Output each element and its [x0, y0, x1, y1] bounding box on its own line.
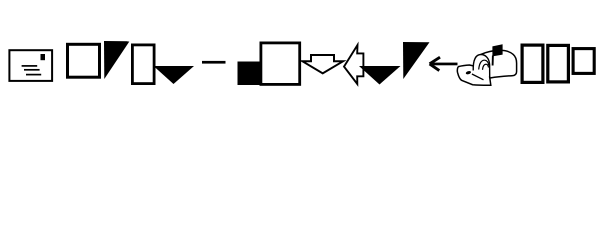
tall rectangle glyph 2 [522, 45, 543, 82]
hollow down arrow [303, 55, 344, 73]
mailbox door flap [457, 65, 490, 85]
tall rectangle glyph 1 [132, 45, 154, 84]
mailbox curl hook [483, 64, 489, 70]
envelope glyph [9, 50, 52, 81]
dash glyph [202, 61, 226, 64]
hollow left arrow [344, 45, 363, 84]
mailbox body [481, 50, 517, 78]
wedge triangle glyph 1 [104, 41, 130, 79]
mailbox front arch [473, 54, 490, 77]
down-pointing filled triangle 2 [359, 66, 401, 85]
thin left arrow [430, 57, 458, 70]
outlined square with black square overlay [238, 43, 300, 85]
small square glyph [573, 49, 594, 74]
mailbox inner curl [479, 60, 489, 69]
mailbox door handle [465, 70, 471, 75]
down-pointing filled triangle 1 [154, 66, 195, 84]
tall rectangle glyph 3 [548, 45, 569, 82]
square glyph 1 [68, 44, 100, 77]
wedge triangle glyph 2 [403, 42, 430, 79]
mailbox flag pole [492, 56, 494, 66]
mailbox flag [492, 44, 502, 56]
mailbox glyph [457, 44, 516, 85]
mailbox door inner edge [472, 74, 484, 80]
